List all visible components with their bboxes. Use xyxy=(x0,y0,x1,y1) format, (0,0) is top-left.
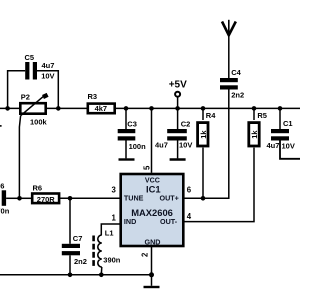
node junction C3 xyxy=(124,106,129,111)
capacitor C6 (cut at edge) xyxy=(0,182,19,216)
svg-text:3: 3 xyxy=(112,186,117,195)
potentiometer P2 xyxy=(20,92,47,126)
svg-text:1: 1 xyxy=(112,214,117,223)
svg-text:GND: GND xyxy=(145,237,161,246)
wire VCC pin 5 xyxy=(151,108,153,172)
+5V supply terminal xyxy=(169,79,187,108)
node junction left of P2 xyxy=(5,106,10,111)
svg-text:L1: L1 xyxy=(105,228,114,237)
svg-text:R3: R3 xyxy=(88,92,98,101)
node junction R4 xyxy=(201,106,206,111)
svg-text:IC1: IC1 xyxy=(146,183,161,194)
svg-text:C7: C7 xyxy=(73,234,83,243)
svg-text:C4: C4 xyxy=(231,68,241,77)
svg-text:10V: 10V xyxy=(179,140,192,149)
wire C4 down to OUT+ (crosses rail) xyxy=(185,90,229,199)
wire cropped stub at left edge xyxy=(0,125,2,127)
svg-text:R6: R6 xyxy=(33,184,43,193)
capacitor C4 xyxy=(220,68,244,99)
svg-text:P2: P2 xyxy=(21,92,30,101)
svg-text:C2: C2 xyxy=(181,119,191,128)
ground under C3 xyxy=(119,141,135,160)
svg-text:4: 4 xyxy=(187,212,192,221)
svg-text:270R: 270R xyxy=(37,195,56,204)
svg-text:2n2: 2n2 xyxy=(74,257,87,266)
node junction L1 bottom xyxy=(99,273,104,278)
svg-text:390n: 390n xyxy=(103,255,121,264)
capacitor C1 xyxy=(267,108,295,150)
resistor R5 xyxy=(185,108,267,221)
op-amp IC1 MAX2606 block xyxy=(121,174,184,246)
node junction R5 xyxy=(252,106,257,111)
inductor L1 xyxy=(94,224,121,275)
node junction C1 xyxy=(278,106,283,111)
svg-text:TUNE: TUNE xyxy=(124,194,144,203)
wire bottom ground rail xyxy=(0,274,152,276)
svg-text:C3: C3 xyxy=(127,119,137,128)
svg-text:1k: 1k xyxy=(250,130,259,139)
svg-text:2n2: 2n2 xyxy=(231,91,244,100)
svg-text:OUT+: OUT+ xyxy=(160,194,179,203)
antenna xyxy=(222,20,236,35)
node junction C7 xyxy=(68,196,73,201)
svg-text:1k: 1k xyxy=(199,130,208,139)
svg-text:4u7: 4u7 xyxy=(155,140,168,149)
node junction wiper/R6 xyxy=(17,196,22,201)
node junction C7 bottom xyxy=(68,273,73,278)
wire TUNE xyxy=(60,197,121,199)
wire antenna to C4 xyxy=(228,35,230,78)
svg-text:100n: 100n xyxy=(129,142,147,151)
svg-text:4u7: 4u7 xyxy=(267,141,280,150)
svg-text:2: 2 xyxy=(141,252,150,257)
wire top supply rail xyxy=(0,107,300,109)
svg-text:10V: 10V xyxy=(282,141,295,150)
resistor R3 xyxy=(88,92,115,113)
resistor R6 xyxy=(20,184,60,204)
svg-text:6: 6 xyxy=(187,185,192,194)
svg-text:OUT-: OUT- xyxy=(160,217,178,226)
node junction IC supply xyxy=(149,106,154,111)
wire C1 to edge xyxy=(280,141,300,159)
svg-text:470n: 470n xyxy=(0,207,10,216)
svg-text:IND: IND xyxy=(124,217,136,226)
svg-text:5: 5 xyxy=(143,165,152,170)
capacitor C2 xyxy=(155,108,192,149)
svg-text:4k7: 4k7 xyxy=(95,104,108,113)
svg-text:100k: 100k xyxy=(30,118,48,127)
resistor R4 xyxy=(198,108,217,198)
svg-text:+5V: +5V xyxy=(169,79,187,90)
capacitor C3 xyxy=(118,108,146,151)
wire GND pin 2 xyxy=(151,247,153,275)
ground under C2 xyxy=(170,141,186,160)
wire P2 wiper xyxy=(19,116,20,199)
node junction supply terminal xyxy=(175,106,180,111)
svg-text:4u7: 4u7 xyxy=(42,61,55,70)
svg-text:C5: C5 xyxy=(25,53,35,62)
svg-text:C6: C6 xyxy=(0,182,4,191)
capacitor C5 xyxy=(8,53,59,108)
capacitor C7 xyxy=(62,198,87,274)
node junction R4 bottom / OUT+ xyxy=(201,196,206,201)
svg-text:R5: R5 xyxy=(257,111,267,120)
svg-text:R4: R4 xyxy=(206,111,216,120)
node junction right of P2 xyxy=(56,106,61,111)
svg-text:10V: 10V xyxy=(41,72,54,81)
node junction GND xyxy=(149,272,154,277)
ground xyxy=(144,275,160,287)
svg-text:C1: C1 xyxy=(283,119,293,128)
